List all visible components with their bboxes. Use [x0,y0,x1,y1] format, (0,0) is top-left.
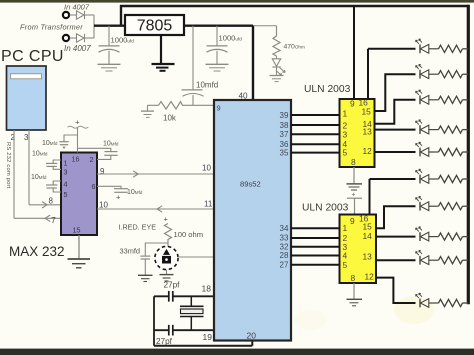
capacitor 1000uf at x=109 [99,26,120,64]
wire: rectified input to 7805 [94,25,125,27]
svg-text:13: 13 [363,127,373,137]
ground (7805) [152,64,175,71]
IC U1 89s52 [214,100,291,341]
resistor R7 row 4 [439,126,463,133]
svg-text:10: 10 [99,201,108,210]
svg-text:9: 9 [350,99,355,109]
svg-text:In 4007: In 4007 [64,44,91,53]
svg-text:15: 15 [73,226,81,235]
svg-text:4: 4 [64,180,68,189]
regulator U3 7805 [125,15,184,35]
svg-text:ULN 2003: ULN 2003 [304,84,351,95]
svg-text:9: 9 [350,216,355,226]
LED D8 row 5 [416,142,439,156]
crystal Y1 [180,296,204,330]
ground (MAX232 pin15) [68,259,91,268]
wire: to MAX232 pin 8 (arrow right) [29,202,61,208]
svg-text:5: 5 [343,260,348,270]
wire: resistor to bus row 8 [463,236,469,238]
svg-text:1: 1 [343,108,348,118]
svg-text:40: 40 [239,92,249,101]
wire: resistor to bus row 2 [463,73,469,75]
wire: ULN2 pin12 to LED row 10 [376,278,416,303]
ground (ULN1 pin8) [347,184,363,190]
resistor R3 100 ohm [165,224,172,248]
resistor R1 10k [159,102,194,109]
wire: MAX232 pin9 to 89s52 pin10 (TX) [97,171,214,177]
svg-text:27pf: 27pf [156,337,173,346]
svg-text:10Mfd: 10Mfd [103,140,119,147]
wire: MAX232 pin15 to ground [78,235,80,259]
LED D4 row 1 [416,39,439,53]
wire: 89s52 pin11 to MAX232 pin10 (RX) [97,206,214,212]
wire: ULN2 pin16 riser [369,179,371,215]
wire: right LED supply bus [467,5,470,304]
wire: ULN2 pin9 stem [354,198,356,214]
wire: to MAX232 pin 7 (arrow left) [14,215,61,221]
svg-text:33mfd: 33mfd [120,247,141,256]
svg-text:1: 1 [64,159,68,168]
wire: reset node to 89s52 pin 9 [193,104,214,106]
svg-text:39: 39 [280,111,289,120]
wire: 89s52 to ULN2 at y=238 [291,237,340,239]
svg-text:In 4007: In 4007 [64,3,90,12]
svg-text:16: 16 [72,155,80,164]
svg-text:RS 232 com port: RS 232 com port [5,142,11,189]
wire: ULN2 pin15 to LED row 7 [376,206,416,228]
svg-text:38: 38 [280,121,289,130]
svg-text:20: 20 [247,331,257,341]
resistor R13 row 10 [439,299,463,306]
wire: crystal left rail [153,296,155,345]
svg-text:470Ohm: 470Ohm [284,44,305,51]
LED D9 row 6 [416,169,439,183]
wire: 7805 ground stem [160,35,162,64]
resistor R12 row 9 [439,257,463,264]
svg-text:1: 1 [343,223,348,233]
svg-text:9: 9 [100,167,105,176]
svg-text:2: 2 [11,133,16,142]
wire: ULN1 pin15 to LED row 2 [375,74,416,111]
svg-text:10k: 10k [163,114,177,123]
resistor R10 row 7 [439,203,463,210]
svg-text:37: 37 [280,130,289,139]
LED D11 row 8 [416,227,439,241]
wire: 89s52 to ULN1 at y=144.2 [291,143,340,145]
top border bar [0,0,474,3]
IC U5 ULN2003 (lower) [340,215,377,284]
wire: 89s52 to ULN1 at y=134.3 [291,133,340,135]
capacitor C5 27pf [169,325,173,336]
resistor R8 row 5 [439,148,463,155]
wire: resistor to bus row 5 [463,151,469,153]
wire: PC pin 2 down [13,130,15,218]
capacitor 10Mfd (pins 4-5) [46,181,61,192]
svg-text:15: 15 [362,107,372,117]
resistor R6 row 3 [439,96,463,103]
svg-text:From Transformer: From Transformer [20,23,83,32]
svg-text:28: 28 [280,251,289,260]
diode D1 In4007 [70,11,94,19]
bottom border bar [0,349,474,355]
svg-text:3: 3 [64,168,68,177]
svg-text:13: 13 [363,252,373,262]
svg-text:12: 12 [365,272,375,282]
wire: riser to top bus [120,5,122,26]
wire: resistor to bus row 10 [463,302,469,304]
capacitor 1000uf at x=217 [207,26,228,64]
svg-text:5: 5 [343,147,348,157]
LED D3 (power indicator) [272,56,285,76]
wire: ULN2 pin14 to LED row 8 [376,236,416,238]
svg-text:10Mfd: 10Mfd [127,189,143,196]
wire: 89s52 to ULN2 at y=264.8 [291,264,340,266]
ground (1000uf at x=109) [98,64,121,71]
resistor R5 row 2 [439,71,463,78]
wire: ULN2 pin16 to LED row 6 [370,178,416,180]
capacitor plate squiggle (pin16 top) [68,126,89,128]
wire: IR bottom to ground [166,270,168,275]
wire: ULN1 pin16 riser [367,49,369,99]
resistor R4 row 1 [439,45,463,52]
wire: ULN1 pin14 to LED row 3 [375,100,416,124]
wire: 10k to ground [148,105,159,111]
wire: XTAL bottom to pin 19 [154,329,214,331]
svg-text:+: + [164,215,169,224]
terminal J1 (from transformer, top) [63,12,69,18]
svg-text:15: 15 [363,221,373,231]
svg-text:7: 7 [51,215,56,225]
svg-text:10Mfd: 10Mfd [42,140,58,147]
svg-text:10: 10 [202,163,211,172]
LED D13 row 10 [416,293,439,307]
wire: resistor to bus row 3 [463,99,469,101]
svg-text:10Mfd: 10Mfd [32,150,48,157]
wire: top supply bus [120,5,468,7]
ground (ULN2 pin8) [347,299,363,306]
wire: 89s52 to ULN2 at y=255.5 [291,255,340,257]
svg-text:33: 33 [280,233,289,242]
svg-text:6: 6 [92,182,96,191]
capacitor C3 10mfd (reset) [182,26,204,106]
LED D5 row 2 [416,64,439,78]
wire: ULN1 pin12 to LED row 5 [375,151,416,153]
ground (10k) [141,111,154,117]
capacitor 10Mfd (MAX232 pin 6) [97,186,128,192]
svg-text:PC CPU: PC CPU [1,48,64,65]
supply plate (ULN2 pin9) [347,197,362,199]
PC CPU tower [7,66,47,130]
wire: VCC riser to 89s52 pin 40 [252,26,254,100]
wire: 89s52 to ULN1 at y=152.6 [291,152,340,154]
wire: ULN1 pin9 riser to bus [353,6,355,99]
svg-text:+: + [352,192,356,199]
svg-text:14: 14 [363,231,373,241]
svg-text:100 ohm: 100 ohm [174,230,204,239]
LED D7 row 4 [416,120,439,134]
diode D2 In4007 [70,34,94,42]
wire: ULN2 pin13 to LED row 9 [376,259,416,261]
svg-text:10Mfd: 10Mfd [31,174,47,181]
svg-text:7805: 7805 [137,18,173,35]
svg-text:27pf: 27pf [164,281,181,290]
svg-text:12: 12 [363,146,373,156]
ground (IR) [160,275,174,281]
ground (1000uf at x=217) [206,64,229,71]
IC U4 ULN2003 (upper) [340,99,375,167]
wire: resistor to bus row 9 [463,259,469,261]
wire: 89s52 to ULN1 at y=115 [291,114,340,116]
svg-text:89s52: 89s52 [240,180,261,189]
wire: PC pin 3 down [28,130,30,205]
wire: resistor to bus row 6 [463,178,469,180]
resistor R11 row 8 [439,233,463,240]
wire: ground return to pin 20 [154,341,252,346]
wire: resistor to bus row 1 [463,48,469,50]
resistor R9 row 6 [439,175,463,182]
svg-text:34: 34 [280,224,289,233]
svg-text:2: 2 [90,155,94,164]
LED D12 row 9 [416,250,439,264]
LED D10 row 7 [416,196,439,210]
svg-text:11: 11 [204,200,213,209]
capacitor 33mfd [140,243,168,275]
svg-text:8: 8 [49,197,54,206]
resistor R2 470 Ohm [273,26,280,56]
svg-text:8: 8 [351,273,356,283]
svg-text:9: 9 [217,104,221,113]
wire: XTAL top to pin 18 [154,295,214,297]
capacitor C4 27pf [169,291,173,302]
wire: 89s52 to ULN1 at y=125 [291,124,340,126]
svg-text:35: 35 [280,149,289,158]
wire: 89s52 to ULN2 at y=228.2 [291,227,340,229]
svg-text:ULN 2003: ULN 2003 [302,203,349,214]
wire: 89s52 to ULN2 at y=246.7 [291,246,340,248]
wire: 7805 output to pin-40 riser [184,25,253,27]
svg-text:5: 5 [64,190,68,199]
wire: output extension to 470 ohm branch [253,25,277,27]
svg-text:MAX 232: MAX 232 [9,244,65,259]
svg-text:10mfd: 10mfd [196,81,218,90]
svg-text:19: 19 [203,332,213,342]
wire: resistor to bus row 7 [463,205,469,207]
IR receiver IR1 (dashed circle) [155,246,178,269]
terminal J2 (from transformer, bottom) [63,35,69,41]
wire: ULN1 pin13 to LED row 4 [375,129,416,131]
wire: diode junction [93,15,95,38]
capacitor 10Mfd (pins 1-3) [46,160,61,169]
wire: ULN1 pin8 ground stem [353,167,355,184]
svg-text:3: 3 [24,133,29,142]
svg-text:27: 27 [280,260,289,269]
ground (power LED) [270,76,284,82]
wire: resistor to bus row 4 [463,129,469,131]
wire: ULN2 pin8 ground stem [353,283,355,299]
svg-text:18: 18 [202,284,212,294]
wire: ULN1 pin16 to LED row 1 [368,48,416,50]
svg-text:+: + [75,118,80,127]
svg-text:+: + [116,193,121,202]
capacitor 10Mfd (pin 2) [78,148,118,159]
wire: IR out to 89s52 [178,256,214,258]
IC U2 MAX232 [61,153,97,236]
capacitor 10Mfd (pin16 left branch) [59,135,77,145]
ground (33mfd) [138,275,153,281]
LED D6 row 3 [416,90,439,104]
svg-text:I.RED. EYE: I.RED. EYE [119,223,157,232]
wire: MAX232 pin16 stem up [77,127,79,153]
svg-text:8: 8 [351,157,356,167]
